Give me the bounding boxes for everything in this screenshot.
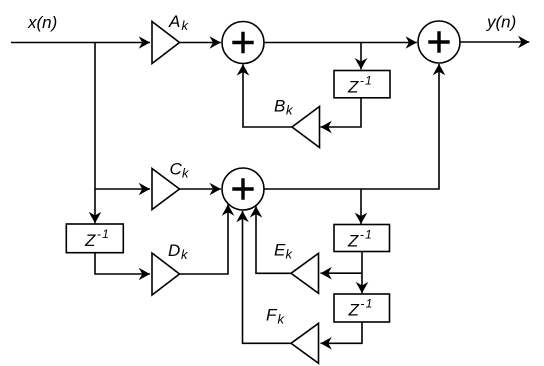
svg-text:E: E [274, 241, 286, 260]
svg-text:k: k [278, 312, 286, 327]
svg-text:x(n): x(n) [27, 13, 57, 32]
svg-text:k: k [182, 18, 190, 33]
svg-text:k: k [286, 103, 294, 118]
svg-text:C: C [170, 160, 183, 179]
svg-text:B: B [274, 97, 285, 116]
svg-text:k: k [182, 166, 190, 181]
svg-text:y(n): y(n) [486, 13, 516, 32]
svg-text:k: k [181, 247, 189, 262]
svg-text:D: D [168, 241, 180, 260]
svg-text:F: F [266, 306, 278, 325]
svg-text:A: A [168, 12, 180, 31]
svg-text:k: k [286, 247, 294, 262]
